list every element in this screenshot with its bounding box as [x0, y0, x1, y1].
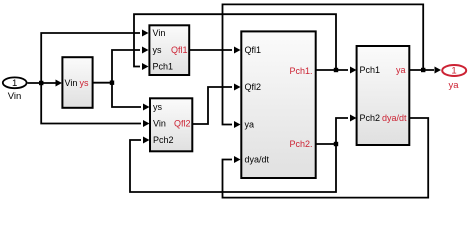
node J3 on Pch1 wire	[334, 68, 338, 72]
wire ya feedback J5 up, left, down to S4 ya input	[223, 4, 424, 124]
svg-text:Vin: Vin	[153, 28, 166, 38]
wire J4 up to S5.Pch2 input	[336, 118, 348, 144]
svg-text:dya/dt: dya/dt	[245, 155, 270, 165]
svg-text:1: 1	[451, 66, 456, 77]
svg-text:Vin: Vin	[153, 119, 166, 129]
svg-text:ya: ya	[245, 120, 255, 130]
subsystem S1 (Vin ys)	[62, 57, 92, 108]
svg-text:ys: ys	[80, 78, 90, 88]
svg-text:Pch1.: Pch1.	[289, 66, 312, 76]
subsystem Qfl2 block	[150, 98, 192, 151]
wire Pch2 feedback J4 down, left, up to Qfl2 block Pch2 input	[130, 140, 336, 192]
svg-text:Pch1: Pch1	[153, 62, 174, 72]
subsystem S4 (central block)	[241, 31, 315, 178]
svg-text:ys: ys	[153, 45, 163, 55]
subsystem S5 (right block)	[357, 46, 410, 145]
svg-text:Qfl1: Qfl1	[171, 45, 188, 55]
wire Qfl1 output to big block Qfl1 input	[189, 49, 232, 51]
svg-text:Vin: Vin	[65, 78, 78, 88]
svg-text:Vin: Vin	[8, 91, 22, 102]
svg-text:ys: ys	[153, 102, 163, 112]
svg-text:Pch2: Pch2	[360, 113, 381, 123]
svg-text:ya: ya	[448, 80, 459, 91]
svg-text:Pch2.: Pch2.	[289, 139, 312, 149]
wire Qfl2 output to big block Qfl2 input	[193, 87, 232, 124]
node J2	[110, 81, 114, 85]
svg-text:Qfl2: Qfl2	[174, 119, 191, 129]
wire ya output to output port	[410, 69, 434, 71]
wire J1 up to Qfl1 block Vin input	[41, 33, 140, 83]
wire J2 down to Qfl2 block ys input	[112, 83, 141, 107]
wire Pch1. output to S5.Pch1	[316, 69, 348, 71]
svg-text:Qfl2: Qfl2	[245, 82, 262, 92]
input port 1 (Vin oval)	[3, 77, 27, 102]
wire Vin port to node J1	[28, 82, 60, 84]
svg-text:1: 1	[12, 78, 17, 89]
wire J1 down to Qfl2 block Vin input	[41, 83, 141, 124]
svg-text:Pch2: Pch2	[153, 135, 174, 145]
wire J1 to S1.Vin	[56, 80, 63, 87]
wire Pch2. output	[316, 143, 336, 145]
wire S1.ys output to node J2	[94, 82, 113, 84]
svg-text:Qfl1: Qfl1	[245, 45, 262, 55]
svg-text:dya/dt: dya/dt	[382, 113, 407, 123]
node J4 on Pch2 wire	[334, 142, 338, 146]
node J1	[39, 81, 43, 85]
wire Pch1 feedback J3 up, left, down to Qfl1 block Pch1 input	[134, 14, 336, 70]
node J5 on ya wire	[421, 68, 425, 72]
wire dya/dt feedback to S4 dya/dt input	[223, 118, 429, 198]
output port 1 (ya oval)	[442, 65, 466, 91]
svg-text:Pch1: Pch1	[360, 65, 381, 75]
subsystem Qfl1 block	[149, 25, 189, 75]
svg-text:ya: ya	[396, 65, 406, 75]
wire J2 up to Qfl1 block ys input	[112, 50, 140, 83]
